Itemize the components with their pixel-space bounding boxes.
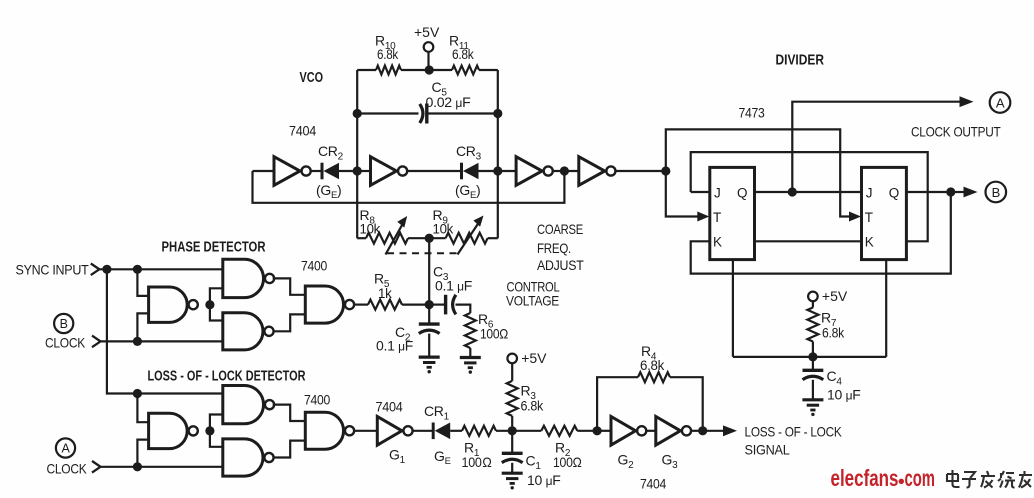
wire Q1 to J2 bbox=[755, 191, 862, 193]
label R6 value bbox=[478, 311, 508, 342]
wire lol to gate1 top bbox=[137, 394, 148, 423]
wiper arrow R9 bbox=[458, 216, 484, 255]
capacitor C3 bbox=[446, 295, 456, 315]
node R8/R9 wiper junction bbox=[425, 234, 434, 243]
potentiometer R9 bbox=[429, 233, 498, 244]
svg-text:0.1 μF: 0.1 μF bbox=[435, 278, 472, 294]
resistor R4 bbox=[638, 372, 670, 382]
wire J1-K2 feedback bbox=[691, 152, 928, 241]
label clock output bbox=[911, 124, 1001, 140]
wire gate1 to gate3 bbox=[210, 305, 223, 321]
nand gate U2C bbox=[223, 313, 274, 350]
svg-text:0.1 μF: 0.1 μF bbox=[376, 338, 413, 354]
svg-text:LOSS - OF - LOCK DETECTOR: LOSS - OF - LOCK DETECTOR bbox=[148, 369, 306, 385]
label divider title bbox=[776, 53, 825, 69]
label G1 bbox=[389, 447, 406, 467]
svg-text:100Ω: 100Ω bbox=[553, 454, 582, 470]
flip-flop FF1 (7473) bbox=[710, 167, 755, 259]
svg-text:B: B bbox=[992, 185, 1000, 200]
wire sync to gate1 bbox=[137, 269, 148, 296]
diode CR1 bbox=[433, 423, 462, 440]
wire sync input chevron bbox=[91, 264, 223, 276]
wire phase det output bbox=[353, 304, 368, 306]
wire K row link bbox=[755, 240, 862, 242]
svg-text:PHASE DETECTOR: PHASE DETECTOR bbox=[162, 240, 266, 256]
svg-text:10k: 10k bbox=[360, 221, 382, 237]
power +5V supply (VCO) bbox=[414, 24, 440, 70]
svg-text:6.8k: 6.8k bbox=[452, 46, 475, 62]
wire C2 lead bbox=[428, 305, 430, 325]
diode CR3 bbox=[462, 163, 498, 180]
wire Aclk to gate1 bbox=[137, 440, 148, 467]
wire lol det output bbox=[353, 430, 377, 432]
resistor R10 bbox=[376, 66, 429, 75]
node CR2 junction bbox=[353, 166, 362, 175]
label B CLOCK bbox=[45, 335, 86, 351]
label 7404 (G2 G3) bbox=[640, 476, 666, 492]
wire loss signal arrow bbox=[703, 425, 737, 436]
svg-text:7404: 7404 bbox=[376, 399, 403, 415]
label C1 value bbox=[526, 453, 561, 489]
svg-text:10k: 10k bbox=[433, 221, 455, 237]
label SYNC INPUT bbox=[16, 262, 90, 278]
label 7404 (G1) bbox=[376, 399, 403, 415]
resistor R11 bbox=[429, 66, 498, 75]
wire C2 to ground bbox=[428, 334, 430, 358]
svg-text:1k: 1k bbox=[378, 285, 393, 301]
inverter U1A bbox=[274, 157, 311, 186]
wire FF2 bottom pin bbox=[885, 260, 887, 357]
nand gate U2D bbox=[305, 286, 354, 323]
svg-text:10 μF: 10 μF bbox=[527, 472, 560, 488]
watermark chinese characters bbox=[947, 470, 1032, 488]
svg-text:K: K bbox=[713, 234, 722, 249]
svg-text:10 μF: 10 μF bbox=[827, 387, 860, 403]
label R9 value bbox=[433, 207, 455, 237]
node A clock circle bbox=[56, 438, 75, 457]
node C5 right bbox=[493, 109, 502, 118]
svg-text:6.8k: 6.8k bbox=[377, 46, 399, 62]
svg-text:FREQ.: FREQ. bbox=[537, 240, 571, 256]
label phase detector title bbox=[162, 240, 266, 256]
wire inverter G input bbox=[253, 170, 275, 172]
wire sync long vertical bbox=[107, 269, 137, 393]
wire divider bottom rail bbox=[733, 356, 886, 358]
label VCO bbox=[300, 70, 324, 86]
node Q1 junction bbox=[788, 187, 797, 196]
logo elecfans.com bbox=[831, 465, 936, 491]
wire B output arrow bbox=[951, 187, 978, 198]
label loss-of-lock signal bbox=[745, 424, 843, 458]
node Q2 junction bbox=[946, 187, 955, 196]
wire U1A out bbox=[310, 170, 322, 172]
resistor R5 bbox=[368, 300, 429, 310]
label G2 bbox=[618, 452, 635, 472]
node loss filter junction bbox=[508, 426, 517, 435]
inverter U1C bbox=[516, 157, 553, 186]
label R7 value bbox=[821, 310, 845, 341]
node B clock junction bbox=[133, 337, 142, 346]
resistor R1 bbox=[462, 426, 512, 436]
svg-text:CLOCK OUTPUT: CLOCK OUTPUT bbox=[911, 124, 1001, 140]
wire C4 lead bbox=[812, 357, 814, 370]
node gate1 output junction bbox=[205, 300, 214, 309]
wire C5 right lead bbox=[427, 112, 498, 114]
node sync B bbox=[133, 265, 142, 274]
wire top rail left bbox=[357, 69, 376, 71]
node sync A bbox=[102, 265, 111, 274]
wire Q2-K1 feedback bbox=[691, 192, 951, 274]
wire VCO left rail bbox=[356, 70, 358, 238]
capacitor C4 bbox=[803, 370, 824, 379]
nand gate U2A bbox=[149, 287, 198, 322]
wire gate1 to gate2 bbox=[210, 288, 223, 304]
svg-text:B: B bbox=[60, 317, 68, 331]
wire C3 to R6 bbox=[456, 305, 471, 313]
label CR2 GE bbox=[316, 182, 341, 201]
svg-text:6.8k: 6.8k bbox=[822, 325, 845, 341]
label G3 bbox=[662, 452, 679, 472]
node control voltage junction bbox=[425, 300, 434, 309]
svg-text:SIGNAL: SIGNAL bbox=[745, 442, 790, 458]
svg-text:6.8k: 6.8k bbox=[521, 398, 545, 414]
wire gang dashed link bbox=[387, 252, 459, 254]
wire U1C out bbox=[552, 170, 579, 172]
resistor R6 bbox=[465, 313, 476, 358]
svg-text:7404: 7404 bbox=[640, 476, 666, 492]
label R2 value bbox=[553, 440, 582, 471]
ground C2 bbox=[419, 357, 440, 373]
svg-text:VCO: VCO bbox=[300, 70, 324, 86]
svg-text:100Ω: 100Ω bbox=[480, 326, 508, 342]
wire gate2 to gate4 bbox=[273, 278, 306, 294]
node lol gate1 output junction bbox=[205, 426, 214, 435]
svg-text:6.8k: 6.8k bbox=[640, 357, 665, 373]
svg-text:J: J bbox=[714, 185, 720, 200]
wire R4 loop bbox=[597, 377, 703, 431]
wire Q2 out bbox=[906, 191, 950, 193]
svg-text:7473: 7473 bbox=[739, 105, 765, 121]
wire B clock input bbox=[92, 336, 223, 348]
wire G2 to G3 bbox=[645, 430, 656, 432]
wire C1 lead bbox=[511, 431, 513, 454]
label 7404 (VCO) bbox=[289, 123, 316, 139]
label C3 value bbox=[433, 264, 472, 294]
label C2 value bbox=[376, 324, 413, 354]
flip-flop FF2 (7473) bbox=[862, 167, 907, 259]
label 7473 bbox=[739, 105, 765, 121]
node VCO supply junction bbox=[425, 65, 434, 74]
label R11 value bbox=[449, 33, 475, 63]
inverter U1D bbox=[579, 157, 616, 186]
nand gate U3B bbox=[223, 386, 274, 424]
wire Bclk to gate1 bbox=[137, 313, 148, 341]
label FF2 pins bbox=[865, 185, 899, 249]
svg-text:100 Ω: 100 Ω bbox=[462, 454, 492, 470]
svg-text:7400: 7400 bbox=[304, 392, 330, 408]
node C5 left bbox=[353, 109, 362, 118]
svg-text:com: com bbox=[905, 465, 936, 491]
label control voltage bbox=[506, 279, 560, 309]
wire G3 out bbox=[690, 430, 703, 432]
nand gate U3D bbox=[305, 412, 354, 449]
label CR3 GE bbox=[455, 182, 480, 201]
label R3 value bbox=[521, 383, 545, 414]
node A clock junction bbox=[133, 462, 142, 471]
power +5V (R3) bbox=[507, 350, 547, 381]
diode CR2 bbox=[322, 163, 357, 180]
wire U1D out bbox=[614, 170, 665, 172]
inverter U1B bbox=[371, 157, 408, 186]
node R7 C4 junction bbox=[808, 352, 817, 361]
svg-text:A: A bbox=[61, 442, 70, 456]
label coarse freq adjust bbox=[537, 221, 584, 273]
node lol top junction bbox=[133, 389, 142, 398]
wire U1B out bbox=[406, 170, 461, 172]
node A output circle bbox=[990, 92, 1011, 113]
svg-text:Q: Q bbox=[889, 185, 899, 200]
wire lolgate3 to gate4 bbox=[273, 441, 306, 458]
inverter G1 bbox=[377, 417, 412, 446]
wire A clock input bbox=[92, 461, 223, 473]
capacitor C5 bbox=[420, 104, 427, 124]
wire C5 left lead bbox=[357, 112, 418, 114]
svg-text:LOSS - OF - LOCK: LOSS - OF - LOCK bbox=[745, 424, 843, 440]
wire C3 lead bbox=[429, 304, 444, 306]
label R1 value bbox=[462, 440, 492, 471]
label CR2 bbox=[318, 143, 344, 163]
inverter G2 bbox=[611, 417, 646, 446]
ground C1 bbox=[502, 473, 523, 489]
wire lol top row bbox=[137, 392, 222, 394]
wire FF1 bottom pin bbox=[732, 260, 734, 357]
svg-text:+5V: +5V bbox=[822, 288, 848, 304]
svg-text:A: A bbox=[996, 95, 1005, 110]
label C4 value bbox=[827, 368, 861, 403]
wire to U1B bbox=[357, 170, 370, 172]
svg-text:J: J bbox=[866, 185, 872, 200]
label C5 value bbox=[426, 79, 471, 110]
node B clock circle bbox=[54, 314, 73, 333]
svg-text:7400: 7400 bbox=[301, 258, 327, 274]
wire to U1C bbox=[498, 170, 516, 172]
svg-text:+5V: +5V bbox=[521, 350, 547, 366]
node CR3 junction bbox=[493, 166, 502, 175]
label FF1 pins bbox=[713, 185, 747, 249]
svg-text:SYNC INPUT: SYNC INPUT bbox=[16, 262, 90, 278]
wire lolgate1 to gate2 bbox=[210, 415, 223, 431]
wire C4 to ground bbox=[812, 380, 814, 400]
ground R6 bbox=[460, 358, 481, 374]
svg-text:7404: 7404 bbox=[289, 123, 316, 139]
wire Q1 to A output bbox=[792, 96, 973, 192]
nand gate U3C bbox=[223, 439, 274, 476]
inverter G3 bbox=[656, 417, 691, 446]
nand gate U2B bbox=[223, 259, 274, 297]
svg-text:0.02 μF: 0.02 μF bbox=[426, 94, 471, 110]
wire G1 out bbox=[412, 430, 433, 432]
wire lolgate2 to gate4 bbox=[273, 405, 306, 421]
wire VCO right rail bbox=[497, 70, 499, 238]
svg-text:VOLTAGE: VOLTAGE bbox=[506, 293, 559, 309]
node B output circle bbox=[986, 182, 1007, 203]
label A CLOCK bbox=[47, 461, 88, 477]
resistor R3 bbox=[507, 381, 518, 431]
node divider clock junction bbox=[661, 166, 670, 175]
capacitor C2 bbox=[419, 324, 440, 333]
svg-text:T: T bbox=[713, 210, 721, 225]
svg-text:ADJUST: ADJUST bbox=[537, 257, 584, 273]
wire wiper to control node bbox=[428, 238, 430, 304]
label 7400 (phase det) bbox=[301, 258, 327, 274]
wire gate3 to gate4 bbox=[273, 314, 306, 331]
wire lolgate1 to gate3 bbox=[210, 431, 223, 447]
resistor R7 bbox=[807, 308, 818, 357]
svg-text:elecfans: elecfans bbox=[831, 465, 899, 491]
ground C4 bbox=[802, 400, 823, 416]
label R8 value bbox=[360, 207, 382, 237]
wire to G2 bbox=[597, 430, 611, 432]
label CR3 bbox=[456, 143, 482, 163]
capacitor C1 bbox=[502, 453, 523, 462]
label R10 value bbox=[375, 33, 399, 63]
svg-text:CLOCK: CLOCK bbox=[45, 335, 86, 351]
svg-text:T: T bbox=[865, 210, 873, 225]
node loss signal junction bbox=[698, 426, 707, 435]
label CR1 GE bbox=[434, 448, 451, 467]
wire clock to T1 bbox=[666, 171, 710, 222]
svg-text:Q: Q bbox=[737, 185, 747, 200]
wire C1 to ground bbox=[511, 463, 513, 473]
power +5V (R7) bbox=[808, 288, 848, 308]
label loss-of-lock title bbox=[148, 369, 306, 385]
wire clock to T2 bbox=[666, 129, 861, 221]
svg-text:CLOCK: CLOCK bbox=[47, 461, 88, 477]
node G2 input junction bbox=[593, 426, 602, 435]
label 7400 (lol) bbox=[304, 392, 330, 408]
nand gate U3A bbox=[149, 413, 198, 448]
resistor R2 bbox=[512, 426, 597, 436]
svg-text:COARSE: COARSE bbox=[537, 221, 583, 237]
label R5 value bbox=[374, 271, 393, 302]
wire VCO feedback loop bbox=[253, 171, 565, 203]
wiper arrow R8 bbox=[386, 216, 408, 255]
node VCO feedback tap bbox=[560, 166, 569, 175]
potentiometer R8 bbox=[357, 233, 429, 244]
svg-text:DIVIDER: DIVIDER bbox=[776, 53, 825, 69]
svg-text:K: K bbox=[865, 234, 874, 249]
label CR1 bbox=[424, 403, 450, 423]
label R4 value bbox=[640, 343, 665, 373]
svg-text:+5V: +5V bbox=[414, 24, 440, 40]
